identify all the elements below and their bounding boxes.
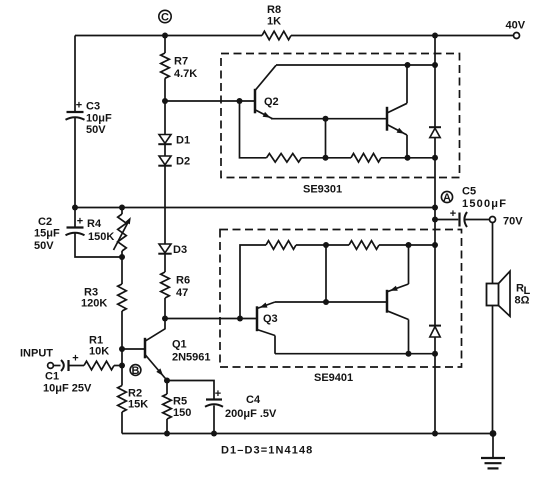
wire bias line to node A [75,207,435,209]
wire R6 to node [164,298,166,319]
svg-text:8Ω: 8Ω [515,295,530,307]
svg-text:+: + [450,208,456,220]
svg-text:C5: C5 [462,186,476,198]
svg-text:C3: C3 [86,101,100,113]
speaker RL [487,271,511,316]
svg-text:D3: D3 [173,244,187,256]
resistor R3 [118,284,127,311]
svg-text:C: C [161,11,169,23]
diode SE9301 catch [429,127,441,137]
resistor SE9301 Rb [351,154,381,163]
wire SE9401 Rb to rail [379,244,435,246]
svg-text:R8: R8 [267,4,281,16]
node B [130,365,141,377]
svg-text:50V: 50V [86,124,106,136]
svg-text:10K: 10K [89,346,109,358]
svg-text:C2: C2 [38,216,52,228]
resistor R5 [163,394,172,419]
svg-text:+: + [77,216,83,228]
wire bottom ground bus [122,433,493,435]
wire base column [121,349,123,434]
svg-text:4.7K: 4.7K [174,68,197,80]
junction SE9401 emitter top [406,242,412,248]
svg-text:C1: C1 [45,371,59,383]
diode SE9401 catch [429,326,441,337]
svg-text:2N5961: 2N5961 [172,352,211,364]
junction SE9301 rail bottom [432,155,438,161]
svg-text:D1: D1 [176,135,190,147]
wire Q2 base to bottom resistors [240,101,267,158]
resistor R6 [161,272,170,298]
wire SE9401 tap down [325,245,327,302]
resistor SE9301 Ra [267,154,302,163]
diode D1 [158,135,171,145]
svg-text:15μF: 15μF [34,228,60,240]
svg-text:10μF 25V: 10μF 25V [43,383,92,395]
wire R1 to base rail [114,365,122,367]
wire D2 to D3 [164,166,166,244]
svg-text:R6: R6 [176,275,190,287]
junction Q1 base [119,346,125,352]
junction Q2 base branch [237,98,243,104]
wire between SE9401 Ra Rb [296,244,349,246]
wire SE9401 bottom rail [275,353,435,355]
potentiometer R4 [114,214,131,251]
junction left rail / bias line [72,205,78,211]
terminal 40V [514,33,520,39]
wire between Ra Rb [302,157,352,159]
resistor R8 [262,31,291,40]
capacitor C2 [66,216,85,236]
diode D3 [158,244,171,254]
svg-text:C4: C4 [246,394,261,406]
resistor R1 [84,361,114,370]
junction bias line at rail [432,205,438,211]
transistor SE9301 output [387,65,407,158]
svg-text:150: 150 [173,407,191,419]
junction Q1 emitter [164,378,170,384]
junction R6 / Q1 collector / Q3 base [162,316,168,322]
resistor SE9401 Rb [349,241,379,250]
svg-text:INPUT: INPUT [20,348,53,360]
wire output rail x435 [434,36,436,434]
junction link node [323,299,329,305]
junction Q2 base takeoff [162,98,168,104]
transistor Q1 [122,319,167,381]
diode D2 [158,156,171,166]
wire Rb to rail [381,157,435,159]
junction SE9401 rail top [432,242,438,248]
capacitor C5 [450,208,467,227]
junction SE9401 top tap [323,242,329,248]
wire R5 stubs [166,381,168,434]
wire speaker drop [492,222,494,433]
junction Q3 base branch [237,316,243,322]
junction top rail / output rail [432,33,438,39]
svg-text:1K: 1K [267,16,281,28]
junction C5 tap [432,217,438,223]
transistor Q2 [255,65,276,118]
svg-text:R5: R5 [173,396,187,408]
resistor SE9401 Ra [266,241,296,250]
wire D3 to R6 [164,254,166,272]
svg-text:B: B [132,365,140,377]
svg-text:15K: 15K [128,399,148,411]
wire Q3 base line [165,318,257,320]
wire Q3 emitter to output base [275,301,387,303]
transistor SE9401 output [387,245,409,354]
svg-text:120K: 120K [81,298,107,310]
svg-text:1500μF: 1500μF [462,198,507,210]
terminal INPUT [48,363,54,369]
svg-text:SE9401: SE9401 [314,372,353,384]
wire SE9301 collector rail [276,64,435,66]
svg-text:A: A [443,192,451,204]
junction SE9301 rail top [432,62,438,68]
svg-text:D1–D3=1N4148: D1–D3=1N4148 [221,445,313,457]
IC block SE9401 dashed outline [220,230,462,368]
junction R4/R3 [119,254,125,260]
junction R4 top [119,205,125,211]
svg-text:R4: R4 [87,218,102,230]
svg-text:D2: D2 [176,156,190,168]
capacitor C4 [205,388,223,407]
svg-text:150K: 150K [88,231,114,243]
wire Q2 emitter to output base [271,118,387,120]
wire C4 branch [167,381,214,434]
junction SE9401 collector bottom [406,351,412,357]
ground [481,434,505,469]
capacitor C3 [66,100,85,120]
IC block SE9301 dashed outline [221,54,460,178]
svg-text:Q1: Q1 [172,339,187,351]
svg-text:70V: 70V [503,216,523,228]
wire R7 to D1 [164,78,166,134]
svg-text:+: + [76,100,82,112]
junction SE9401 rail bottom [432,351,438,357]
svg-text:200μF .5V: 200μF .5V [225,408,277,420]
svg-text:SE9301: SE9301 [303,184,342,196]
svg-text:Q3: Q3 [263,313,278,325]
junction SE9301 collector node [405,62,411,68]
junction R5 bottom [164,431,170,437]
wire R4 stub [121,208,123,258]
svg-text:10μF: 10μF [86,113,112,125]
resistor R7 [161,53,170,78]
wire top 40V supply rail [75,35,513,37]
svg-text:+: + [72,353,78,365]
terminal 70V [490,217,496,223]
wire input to R1 [69,365,85,367]
wire Q2 base [165,100,255,102]
svg-text:47: 47 [176,287,188,299]
junction emitter resistor tap [323,116,329,122]
svg-text:+: + [215,388,221,400]
junction output rail at ground bus [432,431,438,437]
wire left rail upper [74,36,76,112]
resistor R2 [118,386,127,413]
wire C2 branch [75,208,122,258]
svg-text:Q2: Q2 [264,96,279,108]
capacitor C1 [53,353,78,372]
junction bottom node [323,155,329,161]
wire emitter tap down [325,119,327,158]
wire R7 stub [164,36,166,54]
wire D1 to D2 [164,144,166,156]
node C [159,10,171,38]
junction C4 bottom [211,431,217,437]
svg-text:R7: R7 [174,56,188,68]
junction speaker / ground [490,430,497,437]
wire C5 branch [435,219,490,221]
wire left rail lower [74,118,76,208]
wire R3 stubs [121,257,123,349]
junction output emitter node [405,155,411,161]
svg-text:50V: 50V [34,240,54,252]
transistor Q3 [257,302,275,354]
junction R1 node [119,363,125,369]
svg-text:40V: 40V [506,20,526,32]
node A [441,191,452,203]
wire Q3 base branch up [240,245,266,319]
